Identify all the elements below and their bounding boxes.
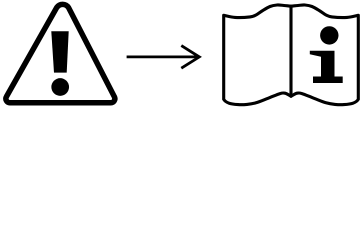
info i stem	[310, 51, 343, 83]
book right page outline	[291, 5, 358, 105]
info i dot	[320, 26, 338, 44]
arrow head	[181, 46, 199, 69]
exclamation mark bar	[51, 31, 68, 72]
exclamation mark dot	[51, 78, 69, 96]
book left page outline	[224, 5, 291, 105]
warning triangle outline	[6, 4, 115, 102]
arrow shaft	[127, 56, 199, 59]
book spine	[289, 6, 292, 96]
